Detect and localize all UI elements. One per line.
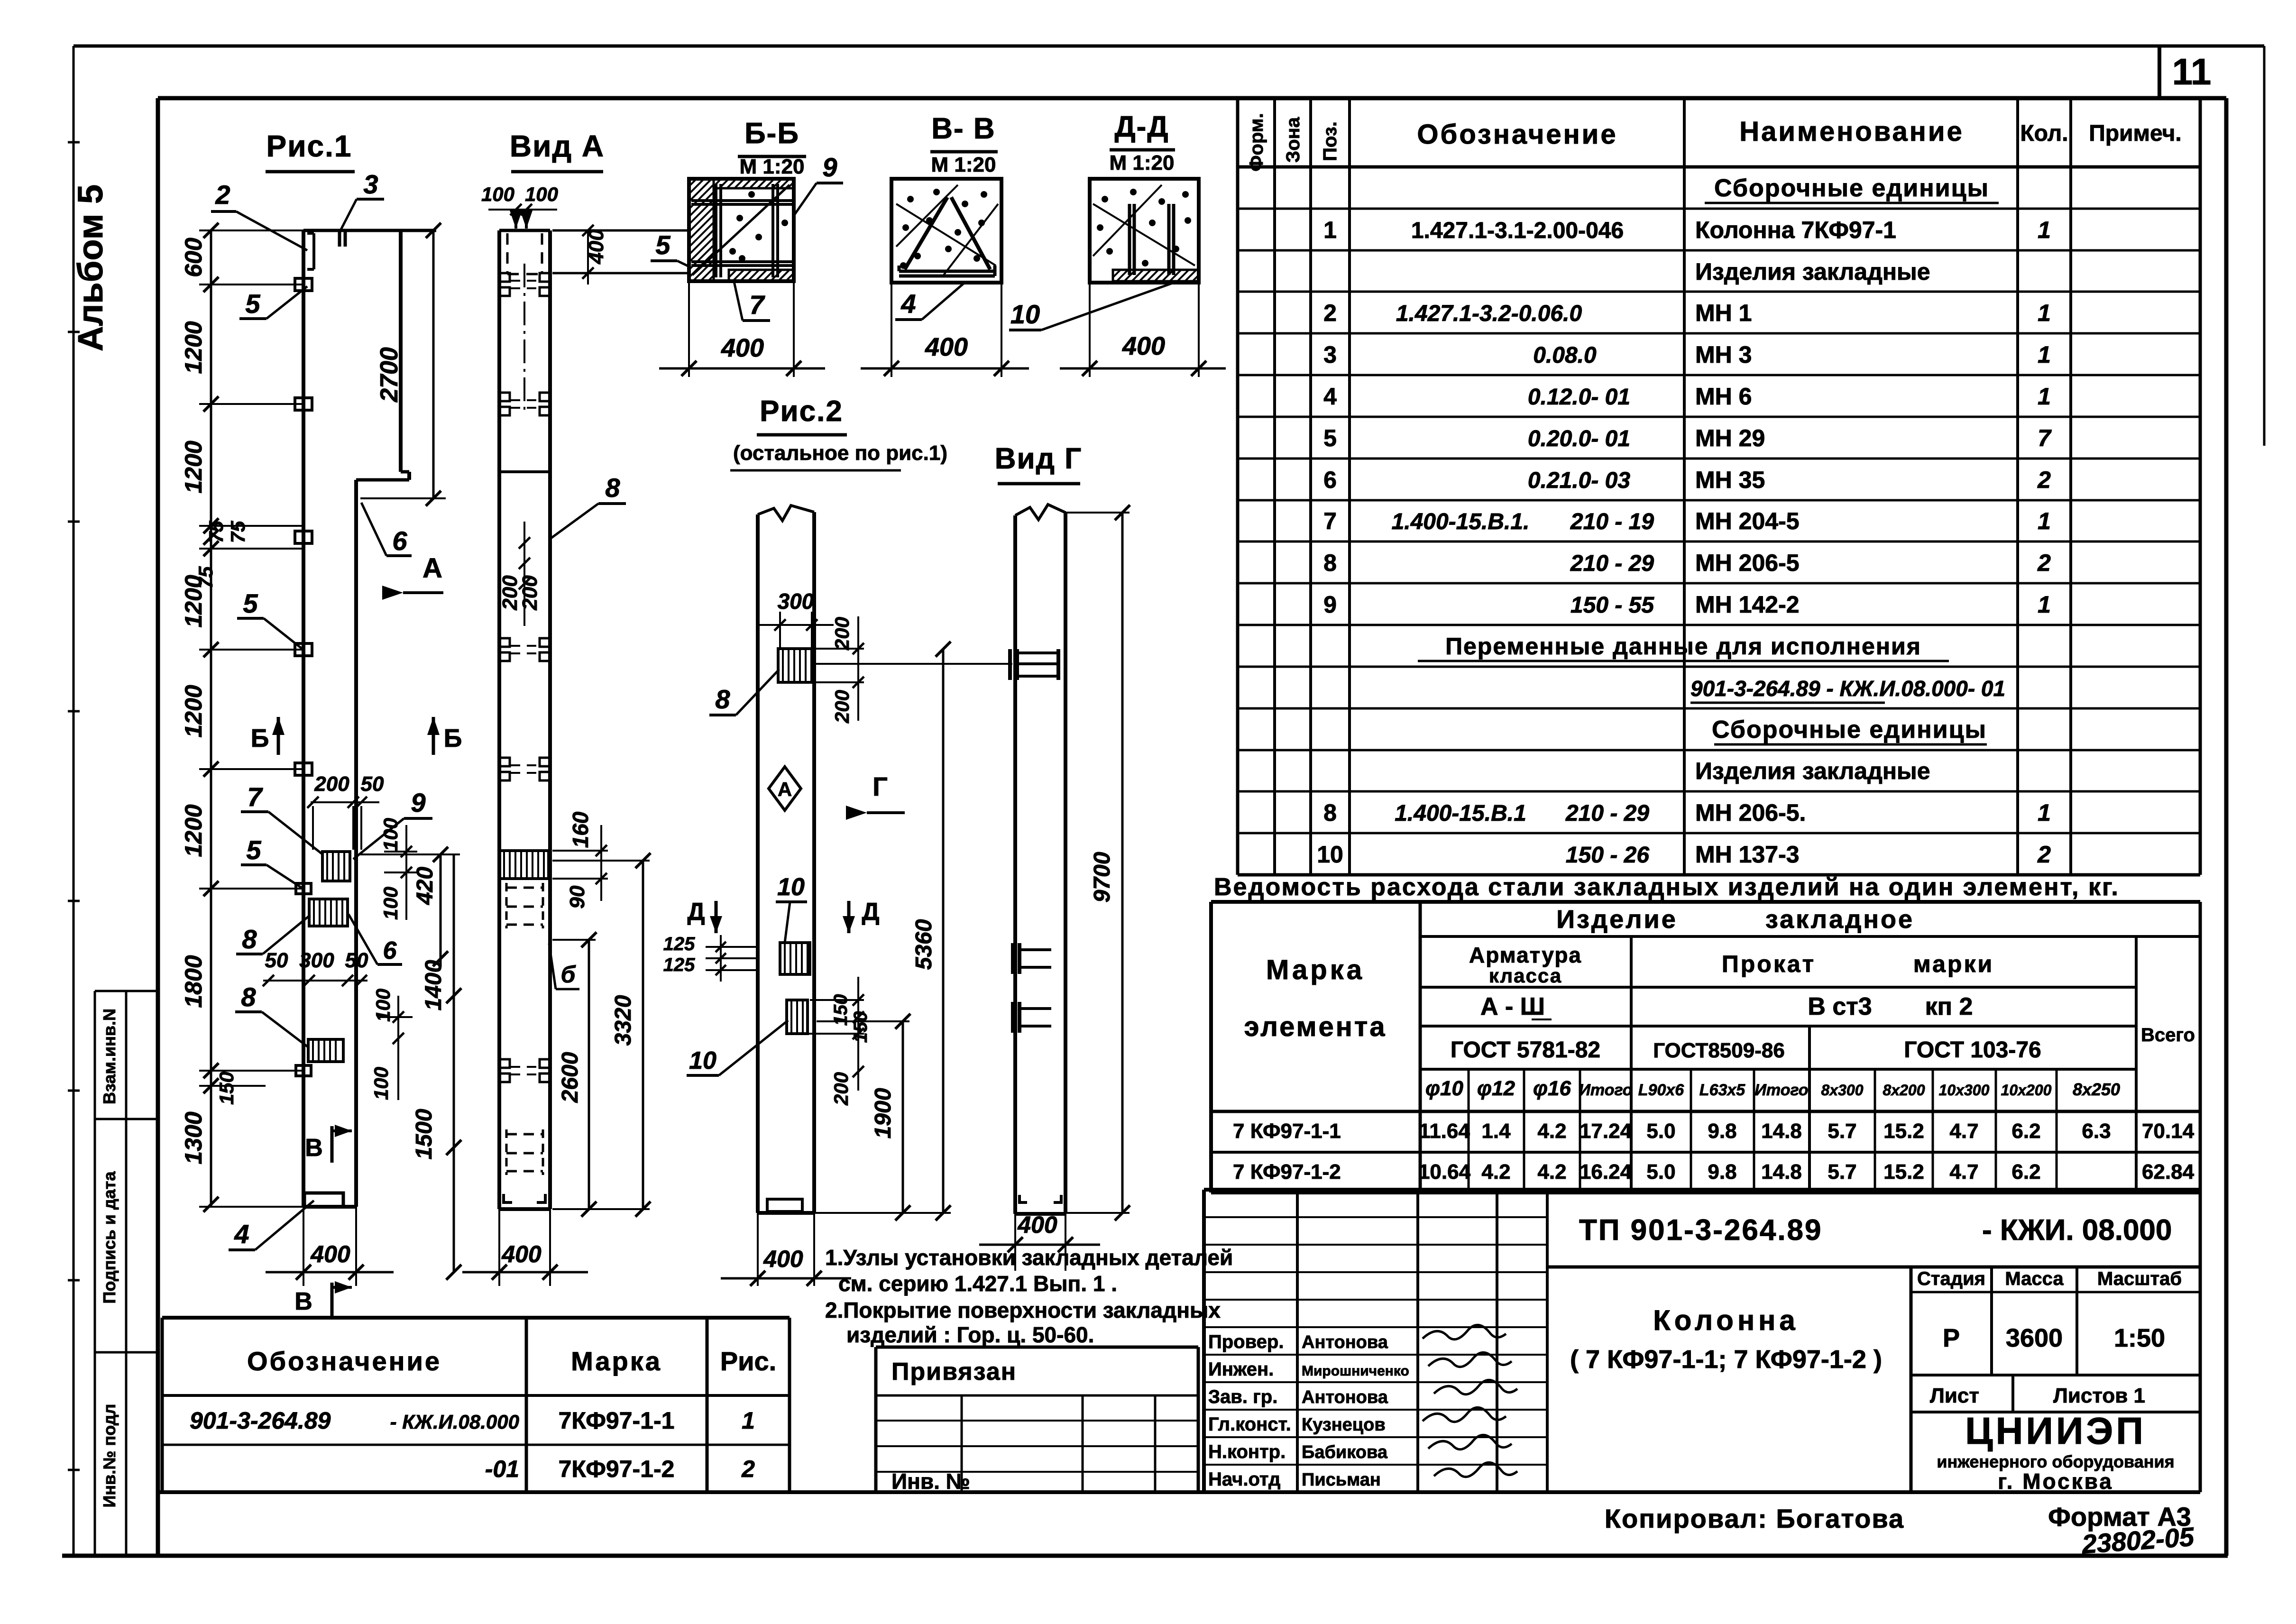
svg-text:Вид Г: Вид Г (995, 442, 1083, 475)
svg-text:8x250: 8x250 (2073, 1080, 2120, 1099)
svg-text:2: 2 (1323, 300, 1337, 326)
svg-text:901-3-264.89 - КЖ.И.08.000-: 901-3-264.89 - КЖ.И.08.000- 01 (1690, 676, 2005, 701)
svg-text:В: В (305, 1134, 323, 1162)
svg-text:600: 600 (180, 238, 207, 277)
svg-text:8: 8 (605, 473, 620, 503)
svg-text:Р: Р (1943, 1324, 1960, 1352)
svg-text:1: 1 (2038, 383, 2051, 410)
svg-text:Обозначение: Обозначение (247, 1346, 441, 1376)
svg-text:Д-Д: Д-Д (1115, 110, 1169, 143)
svg-text:Гл.конст.: Гл.конст. (1208, 1414, 1291, 1435)
svg-text:закладное: закладное (1765, 905, 1914, 934)
svg-text:Взам.инв.N: Взам.инв.N (100, 1009, 119, 1104)
svg-text:1300: 1300 (180, 1111, 207, 1164)
svg-text:Масштаб: Масштаб (2097, 1268, 2182, 1289)
svg-text:9.8: 9.8 (1708, 1160, 1736, 1184)
svg-text:Переменные данные для исполнен: Переменные данные для исполнения (1445, 633, 1921, 660)
svg-text:9: 9 (411, 788, 425, 817)
svg-text:4.2: 4.2 (1537, 1160, 1566, 1184)
svg-text:9.8: 9.8 (1708, 1119, 1736, 1143)
svg-text:Нач.отд: Нач.отд (1208, 1469, 1280, 1490)
svg-text:В ст3: В ст3 (1808, 993, 1872, 1020)
svg-text:см. серию 1.427.1 Вып. 1 .: см. серию 1.427.1 Вып. 1 . (838, 1271, 1117, 1296)
svg-text:φ10: φ10 (1425, 1077, 1463, 1100)
svg-text:Подпись и дата: Подпись и дата (100, 1171, 119, 1304)
svg-text:кп 2: кп 2 (1925, 993, 1973, 1020)
svg-text:200: 200 (518, 575, 542, 611)
svg-text:6: 6 (1323, 467, 1337, 493)
svg-text:7: 7 (749, 290, 765, 320)
svg-text:МН 142-2: МН 142-2 (1695, 591, 1800, 618)
svg-text:Инв. №: Инв. № (891, 1469, 970, 1494)
svg-text:-01: -01 (485, 1456, 519, 1482)
svg-text:L90x6: L90x6 (1638, 1081, 1684, 1099)
svg-text:1: 1 (2038, 799, 2051, 826)
svg-text:0.20.0- 01: 0.20.0- 01 (1528, 426, 1630, 451)
svg-text:420: 420 (413, 867, 438, 905)
svg-text:1200: 1200 (180, 575, 207, 627)
svg-text:( 7 КФ97-1-1; 7 КФ97-1-2 ): ( 7 КФ97-1-1; 7 КФ97-1-2 ) (1570, 1345, 1882, 1374)
svg-text:150: 150 (215, 1072, 238, 1105)
svg-text:10.64: 10.64 (1418, 1160, 1471, 1184)
svg-text:7КФ97-1-1: 7КФ97-1-1 (559, 1407, 675, 1434)
svg-text:8: 8 (1323, 550, 1337, 576)
svg-text:1200: 1200 (180, 321, 207, 374)
svg-text:1: 1 (742, 1407, 755, 1434)
svg-text:Бабикова: Бабикова (1302, 1442, 1388, 1462)
svg-text:100: 100 (370, 1067, 392, 1100)
svg-text:МН 1: МН 1 (1695, 300, 1752, 326)
svg-text:φ16: φ16 (1533, 1077, 1571, 1100)
svg-text:7КФ97-1-2: 7КФ97-1-2 (559, 1456, 675, 1482)
svg-text:6: 6 (383, 937, 397, 964)
svg-text:200: 200 (831, 617, 853, 651)
svg-text:5: 5 (655, 230, 670, 260)
svg-text:Антонова: Антонова (1302, 1387, 1388, 1407)
svg-text:3320: 3320 (611, 995, 636, 1046)
svg-text:1.427.1-3.1-2.00-046: 1.427.1-3.1-2.00-046 (1411, 218, 1624, 243)
svg-text:10: 10 (689, 1047, 716, 1074)
svg-text:1200: 1200 (180, 685, 207, 737)
svg-text:1: 1 (2038, 217, 2051, 243)
svg-text:5.7: 5.7 (1828, 1160, 1856, 1184)
svg-text:50: 50 (361, 772, 384, 796)
svg-text:1900: 1900 (871, 1088, 896, 1138)
svg-text:А - Ш: А - Ш (1480, 993, 1545, 1020)
svg-text:2700: 2700 (376, 347, 403, 403)
svg-text:2.Покрытие поверхности закладн: 2.Покрытие поверхности закладных (825, 1298, 1221, 1322)
svg-text:150 - 26: 150 - 26 (1566, 843, 1649, 868)
svg-text:ЦНИИЭП: ЦНИИЭП (1965, 1410, 2146, 1452)
svg-text:1: 1 (2038, 341, 2051, 368)
svg-text:Привязан: Привязан (891, 1358, 1017, 1385)
svg-text:5360: 5360 (911, 919, 937, 970)
svg-text:210 - 29: 210 - 29 (1570, 551, 1654, 576)
svg-text:2600: 2600 (558, 1052, 583, 1103)
svg-text:11: 11 (2172, 51, 2211, 92)
svg-text:2: 2 (2037, 841, 2051, 868)
svg-text:62.84: 62.84 (2142, 1160, 2195, 1184)
svg-text:Форм.: Форм. (1246, 113, 1267, 171)
svg-text:Вид А: Вид А (510, 129, 605, 163)
svg-text:400: 400 (721, 334, 764, 362)
svg-text:901-3-264.89: 901-3-264.89 (190, 1407, 331, 1434)
svg-text:75: 75 (227, 521, 249, 543)
svg-text:1400: 1400 (421, 960, 446, 1010)
svg-text:Изделие: Изделие (1556, 905, 1678, 934)
svg-text:50: 50 (345, 949, 368, 972)
svg-text:Прокат: Прокат (1722, 951, 1816, 977)
svg-text:9700: 9700 (1090, 852, 1115, 902)
svg-text:2: 2 (2037, 550, 2051, 576)
svg-text:10x200: 10x200 (2001, 1082, 2052, 1099)
svg-text:4: 4 (900, 289, 916, 319)
svg-text:125: 125 (663, 954, 695, 975)
svg-text:70.14: 70.14 (2142, 1119, 2195, 1143)
svg-text:МН 35: МН 35 (1695, 467, 1765, 493)
svg-text:400: 400 (1017, 1211, 1057, 1238)
svg-text:10: 10 (1317, 841, 1343, 868)
svg-text:2: 2 (215, 180, 230, 210)
svg-text:Инв.№ подл: Инв.№ подл (100, 1404, 119, 1508)
svg-text:3: 3 (1323, 341, 1337, 368)
svg-text:Кол.: Кол. (2020, 121, 2068, 146)
svg-text:б: б (561, 961, 577, 988)
svg-text:Провер.: Провер. (1208, 1331, 1284, 1352)
svg-text:Б: Б (444, 724, 462, 752)
svg-text:Инжен.: Инжен. (1208, 1359, 1274, 1380)
svg-text:Итого: Итого (1754, 1081, 1808, 1099)
svg-text:Зав. гр.: Зав. гр. (1208, 1386, 1277, 1407)
svg-text:150: 150 (850, 1011, 871, 1043)
svg-text:М 1:20: М 1:20 (931, 153, 996, 176)
svg-text:4: 4 (234, 1219, 249, 1249)
svg-text:А: А (422, 553, 442, 584)
svg-text:изделий : Гор. ц. 50-60.: изделий : Гор. ц. 50-60. (846, 1322, 1094, 1347)
svg-text:0.21.0- 03: 0.21.0- 03 (1528, 468, 1630, 493)
svg-text:9: 9 (822, 152, 837, 182)
svg-text:ГОСТ 5781-82: ГОСТ 5781-82 (1451, 1037, 1600, 1063)
svg-text:Б-Б: Б-Б (744, 117, 799, 150)
svg-text:Стадия: Стадия (1917, 1268, 1985, 1289)
svg-text:М 1:20: М 1:20 (740, 155, 805, 178)
svg-text:М 1:20: М 1:20 (1110, 151, 1175, 174)
svg-text:ТП 901-3-264.89: ТП 901-3-264.89 (1579, 1214, 1823, 1247)
svg-text:Н.контр.: Н.контр. (1208, 1441, 1286, 1462)
svg-text:160: 160 (568, 811, 593, 848)
svg-text:8x200: 8x200 (1883, 1082, 1925, 1099)
svg-text:150 - 55: 150 - 55 (1570, 593, 1654, 618)
svg-text:Примеч.: Примеч. (2089, 121, 2182, 146)
svg-text:400: 400 (763, 1246, 803, 1272)
svg-text:Сборочные единицы: Сборочные единицы (1712, 716, 1987, 743)
svg-text:L63x5: L63x5 (1699, 1081, 1745, 1099)
svg-text:элемента: элемента (1244, 1011, 1387, 1042)
svg-text:Д: Д (687, 898, 705, 926)
svg-text:МН 6: МН 6 (1695, 383, 1752, 410)
svg-text:0.08.0: 0.08.0 (1533, 343, 1597, 368)
svg-text:400: 400 (925, 333, 968, 361)
svg-text:Антонова: Антонова (1302, 1332, 1388, 1352)
svg-text:1800: 1800 (180, 955, 207, 1008)
svg-text:МН 204-5: МН 204-5 (1695, 508, 1800, 534)
svg-text:Кузнецов: Кузнецов (1302, 1415, 1386, 1435)
svg-text:100: 100 (372, 989, 394, 1022)
svg-text:200: 200 (314, 772, 349, 796)
svg-text:400: 400 (310, 1241, 350, 1267)
svg-text:Б: Б (251, 724, 269, 752)
svg-text:8: 8 (242, 924, 257, 954)
svg-text:10x300: 10x300 (1939, 1082, 1990, 1099)
svg-text:Всего: Всего (2141, 1025, 2195, 1046)
svg-text:- КЖИ. 08.000: - КЖИ. 08.000 (1982, 1214, 2172, 1247)
svg-text:φ12: φ12 (1477, 1077, 1515, 1100)
svg-text:1.400-15.В.1: 1.400-15.В.1 (1395, 801, 1526, 826)
svg-text:8: 8 (1323, 799, 1337, 826)
svg-text:Марка: Марка (571, 1346, 662, 1376)
svg-text:Мирошниченко: Мирошниченко (1302, 1363, 1409, 1379)
svg-text:1200: 1200 (180, 804, 207, 857)
svg-text:200: 200 (831, 690, 853, 724)
svg-text:90: 90 (566, 885, 589, 908)
svg-text:6.2: 6.2 (2011, 1160, 2040, 1184)
svg-text:1: 1 (2038, 300, 2051, 326)
svg-text:1: 1 (2038, 591, 2051, 618)
svg-text:16.24: 16.24 (1580, 1160, 1632, 1184)
svg-text:5.7: 5.7 (1828, 1119, 1856, 1143)
svg-text:100: 100 (525, 183, 558, 205)
svg-text:8: 8 (241, 982, 256, 1012)
svg-text:ГОСТ8509-86: ГОСТ8509-86 (1653, 1039, 1785, 1062)
svg-text:Изделия закладные: Изделия закладные (1695, 758, 1930, 784)
svg-text:1500: 1500 (412, 1109, 437, 1159)
svg-text:7: 7 (2038, 425, 2052, 451)
svg-text:Листов 1: Листов 1 (2053, 1384, 2145, 1407)
svg-text:(остальное по рис.1): (остальное по рис.1) (733, 441, 947, 465)
svg-text:А: А (778, 778, 792, 800)
svg-text:Копировал: Богатова: Копировал: Богатова (1605, 1504, 1904, 1533)
svg-text:7: 7 (1323, 508, 1337, 534)
svg-text:1.4: 1.4 (1481, 1119, 1511, 1143)
svg-text:7 КФ97-1-2: 7 КФ97-1-2 (1233, 1160, 1341, 1184)
svg-text:2: 2 (2037, 467, 2051, 493)
svg-text:10: 10 (1010, 299, 1040, 329)
svg-text:4.2: 4.2 (1537, 1119, 1566, 1143)
svg-text:г. Москва: г. Москва (1998, 1469, 2113, 1494)
svg-text:Колонна: Колонна (1653, 1304, 1799, 1336)
svg-text:17.24: 17.24 (1580, 1119, 1632, 1143)
svg-text:4.2: 4.2 (1481, 1160, 1510, 1184)
svg-text:1200: 1200 (180, 440, 207, 493)
svg-text:Сборочные единицы: Сборочные единицы (1714, 174, 1989, 202)
svg-text:Изделия закладные: Изделия закладные (1695, 258, 1930, 285)
svg-text:7: 7 (247, 782, 263, 812)
svg-text:В- В: В- В (931, 112, 995, 145)
svg-text:Рис.1: Рис.1 (266, 129, 352, 163)
svg-text:300: 300 (299, 949, 334, 972)
svg-text:1.400-15.В.1.: 1.400-15.В.1. (1392, 509, 1530, 534)
svg-text:1: 1 (1323, 217, 1337, 243)
svg-text:100: 100 (379, 887, 402, 920)
svg-text:15.2: 15.2 (1883, 1119, 1924, 1143)
svg-text:Наименование: Наименование (1739, 116, 1964, 147)
svg-text:МН 3: МН 3 (1695, 341, 1752, 368)
svg-text:1.427.1-3.2-0.06.0: 1.427.1-3.2-0.06.0 (1396, 301, 1582, 326)
svg-text:300: 300 (778, 589, 814, 614)
svg-text:марки: марки (1913, 951, 1994, 977)
svg-text:Поз.: Поз. (1320, 121, 1341, 161)
svg-text:3600: 3600 (2006, 1324, 2063, 1352)
svg-text:125: 125 (663, 934, 695, 954)
svg-text:МН 29: МН 29 (1695, 425, 1765, 451)
svg-text:Рис.2: Рис.2 (760, 395, 843, 428)
svg-text:210 - 29: 210 - 29 (1565, 801, 1649, 826)
svg-text:15.2: 15.2 (1883, 1160, 1924, 1184)
svg-text:МН 206-5: МН 206-5 (1695, 550, 1800, 576)
svg-text:14.8: 14.8 (1761, 1119, 1802, 1143)
svg-text:4.7: 4.7 (1949, 1119, 1978, 1143)
svg-text:75: 75 (205, 521, 227, 543)
svg-text:класса: класса (1489, 964, 1562, 987)
svg-text:Письман: Письман (1302, 1470, 1381, 1490)
svg-text:210 - 19: 210 - 19 (1570, 509, 1654, 534)
svg-text:Колонна 7КФ97-1: Колонна 7КФ97-1 (1695, 217, 1896, 243)
svg-text:4.7: 4.7 (1949, 1160, 1978, 1184)
svg-text:1:50: 1:50 (2114, 1324, 2165, 1352)
svg-text:Д: Д (862, 898, 879, 926)
svg-text:Зона: Зона (1283, 117, 1304, 163)
svg-text:3: 3 (363, 169, 378, 199)
svg-text:инженерного оборудования: инженерного оборудования (1937, 1452, 2174, 1471)
svg-text:МН 137-3: МН 137-3 (1695, 841, 1800, 868)
svg-text:5: 5 (246, 835, 261, 865)
svg-text:7 КФ97-1-1: 7 КФ97-1-1 (1233, 1119, 1341, 1143)
svg-text:8: 8 (715, 684, 730, 714)
svg-text:- КЖ.И.08.000: - КЖ.И.08.000 (390, 1411, 519, 1433)
svg-text:8x300: 8x300 (1821, 1082, 1864, 1099)
svg-text:11.64: 11.64 (1419, 1119, 1470, 1143)
svg-text:Г: Г (872, 771, 888, 801)
svg-text:5: 5 (245, 289, 260, 319)
svg-text:5.0: 5.0 (1646, 1160, 1675, 1184)
svg-text:400: 400 (1122, 332, 1165, 360)
svg-text:6: 6 (392, 526, 407, 556)
svg-text:Лист: Лист (1930, 1384, 1979, 1407)
svg-text:Итого: Итого (1579, 1081, 1632, 1099)
svg-text:6.2: 6.2 (2011, 1119, 2040, 1143)
svg-text:400: 400 (585, 229, 608, 265)
svg-text:В: В (294, 1288, 312, 1315)
svg-text:1: 1 (2038, 508, 2051, 534)
svg-text:2: 2 (741, 1456, 755, 1482)
svg-text:6.3: 6.3 (2082, 1119, 2111, 1143)
svg-text:400: 400 (501, 1241, 542, 1267)
svg-text:Ведомость расхода стали заклад: Ведомость расхода стали закладных издели… (1214, 873, 2120, 901)
svg-text:10: 10 (777, 873, 805, 901)
svg-text:0.12.0- 01: 0.12.0- 01 (1528, 385, 1630, 410)
svg-text:100: 100 (379, 818, 402, 851)
svg-text:1.Узлы установки закладных дет: 1.Узлы установки закладных деталей (825, 1245, 1233, 1270)
svg-text:200: 200 (830, 1072, 852, 1106)
svg-text:50: 50 (265, 949, 288, 972)
svg-text:100: 100 (481, 183, 514, 205)
svg-text:Масса: Масса (2005, 1268, 2064, 1289)
svg-text:Марка: Марка (1266, 954, 1365, 985)
svg-text:4: 4 (1323, 383, 1337, 410)
svg-text:9: 9 (1323, 591, 1337, 618)
svg-text:Арматура: Арматура (1469, 943, 1582, 967)
svg-text:Рис.: Рис. (720, 1346, 776, 1376)
svg-text:ГОСТ 103-76: ГОСТ 103-76 (1904, 1037, 2041, 1063)
svg-text:5.0: 5.0 (1646, 1119, 1675, 1143)
svg-text:5: 5 (1323, 425, 1337, 451)
svg-text:Обозначение: Обозначение (1417, 119, 1617, 150)
svg-text:5: 5 (243, 588, 258, 618)
svg-text:14.8: 14.8 (1761, 1160, 1802, 1184)
svg-text:МН 206-5.: МН 206-5. (1695, 799, 1806, 826)
svg-text:Альбом 5: Альбом 5 (71, 184, 110, 351)
